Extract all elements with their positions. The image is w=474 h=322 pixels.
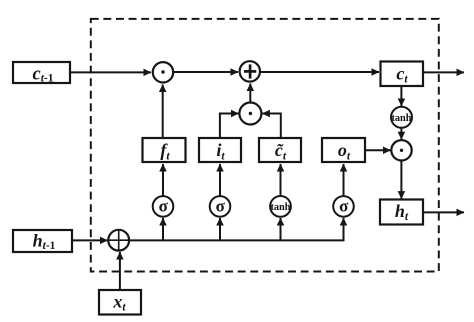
box f_t	[143, 138, 186, 163]
wire tanh1 to c~_t	[280, 164, 282, 196]
tanh2 circle	[391, 107, 412, 128]
wire f_t to forget multiply node	[162, 85, 164, 139]
svg-text:σ: σ	[339, 197, 349, 216]
concat node	[108, 230, 129, 251]
wire output multiply node to h_t	[400, 161, 402, 199]
wire h_t output right	[423, 211, 464, 213]
wire sigma1 to f_t	[162, 164, 164, 196]
wire sigma2 to i_t	[219, 164, 221, 196]
sigma2 circle	[210, 196, 231, 217]
wire x_t to concat node	[119, 252, 121, 290]
sigma4 circle	[333, 196, 354, 217]
wire i_t to input multiply node	[220, 114, 239, 139]
sigma1 circle	[153, 196, 174, 217]
wire sigma3 to o_t	[343, 164, 345, 196]
box c~_t	[259, 138, 301, 163]
branch wire to sigma1	[162, 218, 164, 240]
wire o_t to output multiply node	[365, 149, 391, 151]
box h_t	[380, 200, 423, 225]
bus wire from concat node to sigma3	[129, 218, 344, 240]
wire add node to c_t	[260, 71, 379, 73]
wire forget multiply node to add node	[173, 71, 238, 73]
box i_t	[199, 138, 241, 163]
svg-text:σ: σ	[216, 197, 226, 216]
box o_t	[322, 138, 365, 163]
wire h_t-1 to concat node	[72, 239, 108, 241]
wire c_t output right	[423, 71, 464, 73]
wire c~_t to input multiply node	[262, 114, 281, 139]
input multiply node	[239, 103, 261, 125]
wire input multiply node to add node	[249, 84, 251, 103]
svg-text:tanh: tanh	[391, 113, 411, 124]
branch wire to sigma2	[219, 218, 221, 240]
add node	[240, 61, 260, 81]
wire tanh2 to output multiply node	[400, 128, 402, 140]
box h_t-1	[13, 230, 72, 252]
forget multiply node	[153, 62, 173, 82]
svg-text:σ: σ	[159, 197, 169, 216]
box x_t	[99, 290, 141, 315]
wire c_t to tanh2	[400, 86, 402, 106]
box c_t	[381, 62, 424, 87]
tanh1 circle	[270, 196, 291, 217]
svg-text:tanh: tanh	[270, 202, 290, 213]
branch wire to tanh1	[280, 218, 282, 240]
box c_t-1	[13, 62, 70, 84]
wire c_t-1 to forget multiply node	[70, 71, 151, 73]
dashed cell boundary	[91, 19, 439, 272]
output multiply node	[391, 140, 411, 160]
